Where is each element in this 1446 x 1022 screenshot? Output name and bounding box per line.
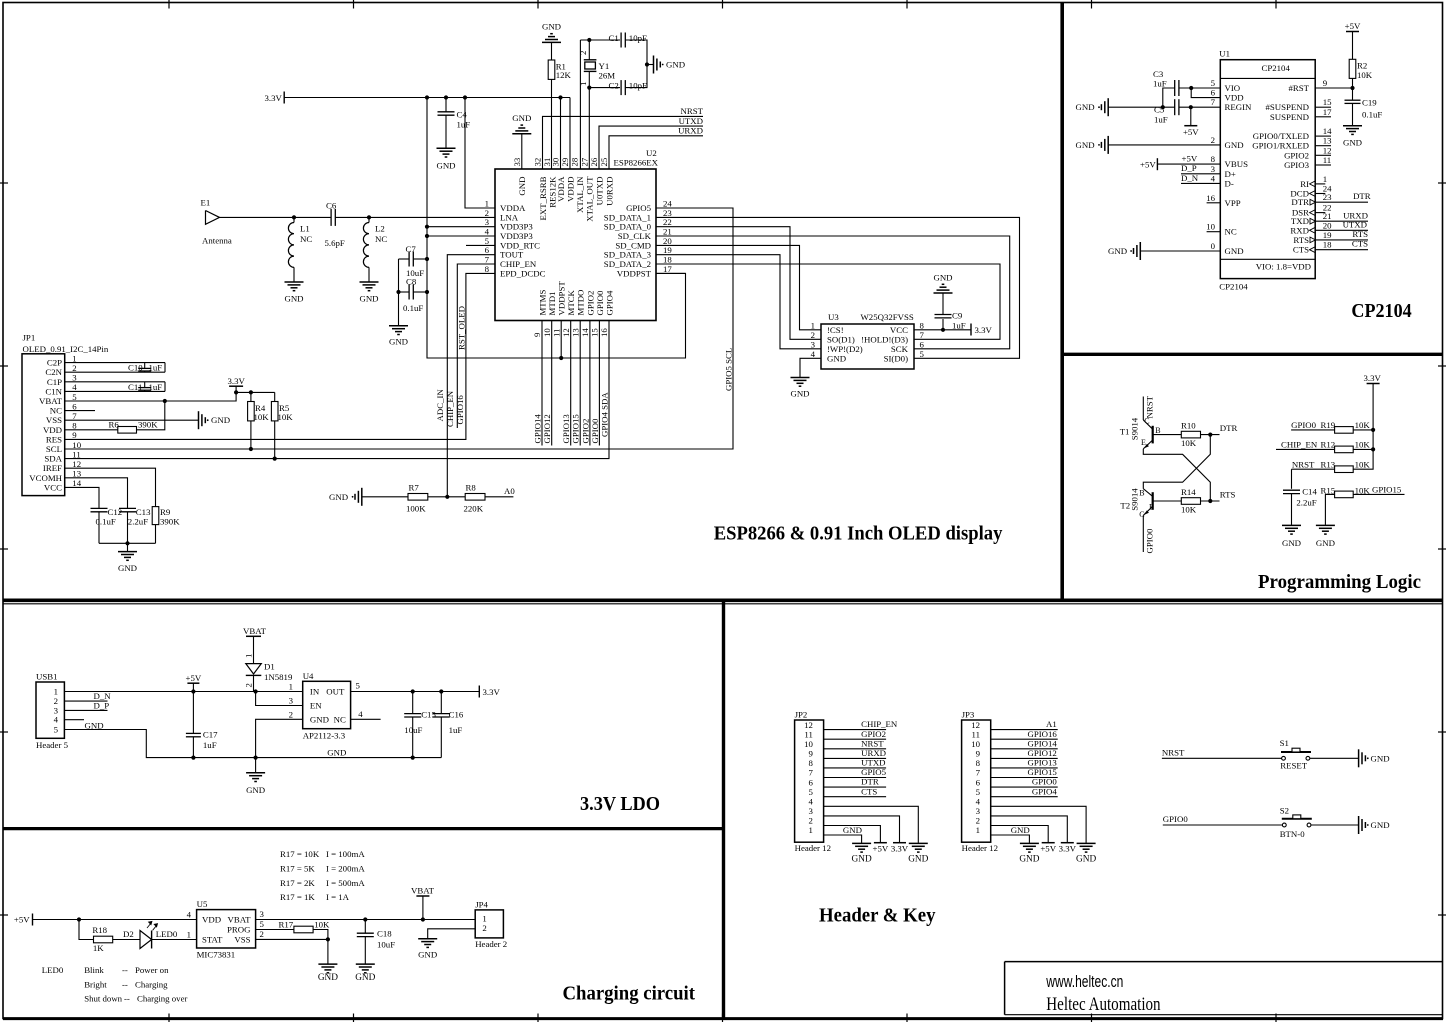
T2 emitter wire to GPIO0 xyxy=(1143,506,1152,515)
capacitor C5 xyxy=(1174,99,1176,115)
svg-text:D_P: D_P xyxy=(94,701,110,711)
svg-text:25: 25 xyxy=(599,157,609,166)
svg-text:9: 9 xyxy=(1323,78,1328,88)
svg-text:JP1: JP1 xyxy=(23,333,36,343)
svg-text:Blink: Blink xyxy=(84,965,104,975)
svg-text:C8: C8 xyxy=(406,277,417,287)
svg-text:GPIO1/RXLED: GPIO1/RXLED xyxy=(1252,141,1309,151)
svg-text:Antenna: Antenna xyxy=(202,236,232,246)
wire NRST to U2 pin32 xyxy=(543,116,704,169)
wire U4 GND pin2 to rail and USB pin4 row xyxy=(256,719,303,757)
resistor R14 xyxy=(1153,500,1182,502)
chip U5 MIC73831 body xyxy=(197,910,256,948)
T1 emitter wire xyxy=(1143,440,1152,449)
svg-text:GND: GND xyxy=(327,747,346,757)
wire U4 OUT to 3.3V xyxy=(351,691,480,693)
wire R12 to rail xyxy=(1353,448,1373,450)
svg-text:RTS: RTS xyxy=(1352,229,1368,239)
svg-text:220K: 220K xyxy=(464,504,484,514)
svg-text:15: 15 xyxy=(1323,97,1332,107)
wire JP1 pin1 C2P xyxy=(65,362,165,364)
svg-text:GPIO15: GPIO15 xyxy=(1372,485,1402,495)
svg-text:6: 6 xyxy=(976,777,981,787)
svg-text:GND: GND xyxy=(790,389,809,399)
svg-text:1uF: 1uF xyxy=(457,120,471,130)
svg-text:3.3V: 3.3V xyxy=(265,93,283,103)
svg-text:5: 5 xyxy=(808,787,813,797)
svg-text:2: 2 xyxy=(808,816,812,826)
svg-text:26M: 26M xyxy=(599,71,616,81)
svg-text:GND: GND xyxy=(843,825,862,835)
svg-text:SUSPEND: SUSPEND xyxy=(1270,112,1309,122)
wire GPIO0 to S2 xyxy=(1163,824,1283,826)
svg-text:18: 18 xyxy=(1323,240,1332,250)
svg-text:+5V: +5V xyxy=(14,915,30,925)
svg-text:3.3V: 3.3V xyxy=(1059,843,1077,853)
svg-text:R9: R9 xyxy=(160,507,171,517)
wire JP3 pin1 to ground xyxy=(991,835,1030,843)
junction VDDA pin1 drop xyxy=(463,95,467,99)
connector JP2 body xyxy=(795,720,824,842)
capacitor C15 xyxy=(412,692,414,714)
svg-text:AP2112-3.3: AP2112-3.3 xyxy=(303,731,346,741)
wire crystal to node xyxy=(588,40,590,60)
svg-text:1: 1 xyxy=(187,930,191,940)
svg-text:--: -- xyxy=(122,965,128,975)
ground GND below JP3 pin1 xyxy=(1020,842,1039,844)
svg-text:GND: GND xyxy=(310,715,329,725)
svg-text:VSS: VSS xyxy=(234,935,250,945)
svg-text:8: 8 xyxy=(808,758,813,768)
svg-text:GPIO4: GPIO4 xyxy=(1032,786,1058,796)
svg-text:8: 8 xyxy=(485,264,490,274)
wire C12/C13/R9 bottom rail xyxy=(99,542,156,544)
svg-text:17: 17 xyxy=(663,264,672,274)
svg-text:12: 12 xyxy=(971,720,980,730)
svg-text:U0RXD: U0RXD xyxy=(604,177,614,206)
svg-text:VBAT: VBAT xyxy=(228,915,252,925)
wire U1 pin24 DCD stub xyxy=(1315,193,1325,195)
wire S2 to ground xyxy=(1311,824,1359,826)
wire SD_DATA_0 pin22 to U3 SO xyxy=(656,227,821,340)
svg-text:1: 1 xyxy=(976,825,980,835)
svg-text:C1: C1 xyxy=(609,33,619,43)
svg-text:LED0: LED0 xyxy=(156,929,178,939)
svg-text:GND: GND xyxy=(1225,140,1244,150)
svg-text:R6: R6 xyxy=(109,420,120,430)
svg-text:+5V: +5V xyxy=(1182,154,1198,164)
wire U1 pin12 stub xyxy=(1315,154,1331,156)
ESP8266 U2 chip body xyxy=(495,169,656,321)
svg-text:S9014: S9014 xyxy=(1129,417,1139,440)
svg-text:9: 9 xyxy=(976,749,981,759)
wire USB1 pin3 xyxy=(64,709,107,711)
svg-text:Header & Key: Header & Key xyxy=(819,906,936,927)
svg-text:12: 12 xyxy=(561,328,571,337)
svg-text:U0TXD: U0TXD xyxy=(594,177,604,206)
wire JP1 pin3 C1P xyxy=(65,381,165,383)
section divider CP2104/Programming xyxy=(1062,353,1443,356)
chip U4 AP2112 body xyxy=(303,681,351,728)
svg-text:UTXD: UTXD xyxy=(1343,219,1367,229)
wire R8 to A0 xyxy=(485,496,513,498)
svg-text:C9: C9 xyxy=(952,311,963,321)
wire USB1 pin1 +5V line to U4 IN xyxy=(64,691,302,693)
ground GND below C18 xyxy=(356,963,375,965)
junction C8 left xyxy=(396,290,400,294)
svg-text:5: 5 xyxy=(976,787,981,797)
svg-text:ESP8266EX: ESP8266EX xyxy=(614,158,659,168)
wire JP1 pin14 VCC to C12 xyxy=(65,487,99,508)
svg-text:10K: 10K xyxy=(1181,505,1197,515)
svg-text:MTD1: MTD1 xyxy=(547,292,557,316)
svg-text:GND: GND xyxy=(1282,538,1301,548)
svg-text:10pF: 10pF xyxy=(629,81,647,91)
svg-text:GPIO0: GPIO0 xyxy=(590,418,600,444)
wire JP2 pin4 to ground xyxy=(824,806,919,843)
svg-text:+5V: +5V xyxy=(1183,127,1199,137)
ground GND below C4 xyxy=(437,147,456,149)
svg-text:DTR: DTR xyxy=(1291,197,1309,207)
svg-text:30: 30 xyxy=(551,157,561,166)
svg-text:11: 11 xyxy=(804,729,812,739)
svg-text:4: 4 xyxy=(976,796,981,806)
svg-text:16: 16 xyxy=(1206,193,1215,203)
svg-text:1uF: 1uF xyxy=(449,725,463,735)
svg-text:L2: L2 xyxy=(375,224,385,234)
junction C15 xyxy=(411,689,415,693)
junction DTR xyxy=(1208,433,1212,437)
svg-text:VSS: VSS xyxy=(46,415,62,425)
svg-text:GPIO2: GPIO2 xyxy=(580,419,590,444)
wire U3 GND pin4 xyxy=(800,358,821,377)
svg-text:0.1uF: 0.1uF xyxy=(96,517,116,527)
svg-text:Charging over: Charging over xyxy=(137,994,187,1004)
svg-text:1uF: 1uF xyxy=(952,320,966,330)
svg-text:SCK: SCK xyxy=(891,344,909,354)
svg-text:NRST: NRST xyxy=(1162,747,1185,757)
svg-text:10K: 10K xyxy=(254,412,270,422)
diode D2 LED0 xyxy=(140,931,152,949)
section divider vertical main/CP2104 xyxy=(1060,3,1064,602)
wire U2 pin7 CHIP_EN xyxy=(457,264,495,428)
svg-text:GND: GND xyxy=(318,973,338,983)
connector JP3 body xyxy=(962,720,991,842)
wire U5 PROG pin5 to R17 xyxy=(256,929,294,931)
svg-text:7: 7 xyxy=(808,768,813,778)
svg-text:EXT_RSRB: EXT_RSRB xyxy=(538,176,548,220)
svg-text:5: 5 xyxy=(72,392,77,402)
wire 3.3V vertical x427 to pins3/4 and VDDPST line xyxy=(427,98,686,359)
power port +5V below REGIN xyxy=(1190,107,1192,126)
power port +5V at JP3 xyxy=(1042,842,1055,844)
junction C18 xyxy=(363,917,367,921)
svg-text:5: 5 xyxy=(356,681,361,691)
wire antenna to LNA xyxy=(220,216,332,218)
svg-text:1: 1 xyxy=(54,687,58,697)
svg-text:4: 4 xyxy=(811,349,816,359)
wire to pin3 xyxy=(427,226,495,228)
svg-text:GND: GND xyxy=(542,22,561,32)
svg-text:3.3V: 3.3V xyxy=(891,843,909,853)
junction C15/rail xyxy=(411,756,415,760)
wire U2 bottom pins 9,10,12,13,14,15 net stubs xyxy=(541,321,543,446)
wire DTR xyxy=(1315,201,1368,203)
svg-text:U4: U4 xyxy=(303,671,314,681)
ground GND below rail at U4 xyxy=(255,758,257,773)
svg-text:C18: C18 xyxy=(377,929,392,939)
svg-text:0.1uF: 0.1uF xyxy=(1362,110,1382,120)
svg-text:R13: R13 xyxy=(1321,459,1336,469)
svg-text:Header 12: Header 12 xyxy=(962,843,998,853)
svg-text:GPIO4 SDA: GPIO4 SDA xyxy=(599,392,609,437)
wire CTS xyxy=(1315,249,1368,251)
junction 3.3V/VDD3P3 drop xyxy=(425,95,429,99)
svg-text:3: 3 xyxy=(260,909,265,919)
wire C1/C2 right to ground xyxy=(625,40,647,88)
svg-text:8: 8 xyxy=(1211,154,1216,164)
svg-text:GND: GND xyxy=(1019,855,1039,865)
wire U1 pin13 stub xyxy=(1315,145,1331,147)
svg-text:GND: GND xyxy=(359,294,378,304)
svg-text:10: 10 xyxy=(1206,222,1215,232)
svg-text:6: 6 xyxy=(808,777,813,787)
svg-text:2: 2 xyxy=(976,816,980,826)
ground GND below C12 C13 R9 xyxy=(118,551,137,553)
svg-text:A1: A1 xyxy=(1046,719,1057,729)
svg-text:C4: C4 xyxy=(457,110,468,120)
svg-text:CTS: CTS xyxy=(1293,245,1309,255)
svg-text:Power on: Power on xyxy=(135,965,169,975)
svg-text:GND: GND xyxy=(1371,820,1390,830)
wire U1 pin11 stub xyxy=(1315,164,1331,166)
svg-text:I = 1A: I = 1A xyxy=(326,892,350,902)
inductor L2 xyxy=(368,217,370,222)
wire S1 to ground xyxy=(1310,757,1359,759)
svg-text:6: 6 xyxy=(1211,88,1216,98)
svg-text:MTMS: MTMS xyxy=(537,289,547,315)
junction RTS xyxy=(1208,499,1212,503)
svg-text:+5V: +5V xyxy=(186,673,202,683)
svg-text:VDD: VDD xyxy=(202,915,221,925)
wire U1 pin17 stub xyxy=(1315,116,1331,118)
wire U1 pin22 DSR stub xyxy=(1315,212,1325,214)
svg-text:R17 = 10K: R17 = 10K xyxy=(280,849,320,859)
svg-text:CP2104: CP2104 xyxy=(1262,63,1291,73)
ground GND below U3 xyxy=(791,377,810,379)
svg-text:Shut down: Shut down xyxy=(84,994,122,1004)
svg-text:1uF: 1uF xyxy=(1154,115,1168,125)
svg-text:32: 32 xyxy=(533,158,543,167)
junction ADC_IN divider xyxy=(445,495,449,499)
junction R19/rail xyxy=(1371,428,1375,432)
capacitor C12 xyxy=(91,507,108,509)
capacitor C10 xyxy=(144,363,146,369)
svg-text:2: 2 xyxy=(1211,135,1215,145)
svg-text:10K: 10K xyxy=(278,412,294,422)
svg-text:URXD: URXD xyxy=(678,126,703,136)
junction R12/rail xyxy=(1371,447,1375,451)
svg-text:15: 15 xyxy=(590,328,600,337)
svg-text:10: 10 xyxy=(72,440,81,450)
flash U3 chip body xyxy=(821,324,914,369)
svg-text:!CS!: !CS! xyxy=(827,325,844,335)
svg-text:3: 3 xyxy=(808,806,813,816)
svg-text:NC: NC xyxy=(1225,227,1237,237)
svg-text:C10: C10 xyxy=(128,363,143,373)
svg-text:EN: EN xyxy=(310,701,322,711)
svg-text:CP2104: CP2104 xyxy=(1351,300,1411,322)
svg-text:R19: R19 xyxy=(1321,420,1336,430)
svg-text:PROG: PROG xyxy=(227,925,251,935)
svg-text:GND: GND xyxy=(1371,754,1390,764)
junction VBAT port xyxy=(421,917,425,921)
wire JP4 pin2 to ground xyxy=(428,929,476,938)
svg-text:3: 3 xyxy=(811,339,816,349)
svg-text:C11: C11 xyxy=(128,382,142,392)
svg-text:C3: C3 xyxy=(1153,69,1164,79)
wire D1 node to U4 EN xyxy=(256,692,303,706)
svg-text:2: 2 xyxy=(482,923,486,933)
svg-text:U3: U3 xyxy=(828,312,839,322)
capacitor C13 xyxy=(119,507,136,509)
junction C8 right xyxy=(425,290,429,294)
USB connector USB1 body xyxy=(36,682,64,738)
svg-text:R10: R10 xyxy=(1181,421,1196,431)
wire JP1 pin4 C1N xyxy=(65,390,165,392)
ground GND right of JP2 xyxy=(909,842,928,844)
svg-text:CTS: CTS xyxy=(1352,239,1368,249)
svg-text:NC: NC xyxy=(334,715,346,725)
junction C16 xyxy=(439,689,443,693)
cross wire DTR to T2 collector xyxy=(1143,435,1210,489)
svg-text:MIC73831: MIC73831 xyxy=(197,950,236,960)
svg-text:VCC: VCC xyxy=(890,325,908,335)
wire C3 left loop to REGIN line xyxy=(1163,88,1175,107)
capacitor C19 xyxy=(1352,88,1354,100)
svg-text:5: 5 xyxy=(260,919,265,929)
wire SD_CMD pin20 to U3 CS xyxy=(656,245,821,329)
svg-text:13: 13 xyxy=(1323,136,1332,146)
svg-text:2: 2 xyxy=(260,929,264,939)
svg-text:1: 1 xyxy=(482,914,486,924)
svg-text:GND: GND xyxy=(827,353,846,363)
wire GPIO0 to R19 xyxy=(1291,429,1335,431)
svg-text:GPIO14: GPIO14 xyxy=(1027,738,1057,748)
svg-text:GND: GND xyxy=(852,855,872,865)
wire U2 pin11 VDDPST to 3.3V line xyxy=(560,321,562,359)
svg-text:NRST: NRST xyxy=(681,106,704,116)
wire +5V to VBUS xyxy=(1157,163,1220,165)
svg-text:1uF: 1uF xyxy=(203,740,217,750)
svg-text:10K: 10K xyxy=(1355,440,1371,450)
svg-text:GPIO15: GPIO15 xyxy=(1027,767,1057,777)
svg-text:2.2uF: 2.2uF xyxy=(1296,498,1316,508)
svg-text:D+: D+ xyxy=(1225,169,1236,179)
svg-text:D_N: D_N xyxy=(1181,173,1199,183)
resistor R13 xyxy=(1335,466,1354,473)
ground GND below L1 xyxy=(285,281,304,283)
resistor R2 xyxy=(1352,32,1354,60)
svg-text:GPIO15: GPIO15 xyxy=(571,414,581,444)
wire D- to U1 pin4 xyxy=(1181,182,1220,184)
wire ground to R7 xyxy=(362,496,408,498)
svg-text:C19: C19 xyxy=(1362,98,1377,108)
svg-text:B: B xyxy=(1155,426,1160,435)
svg-text:GPIO0: GPIO0 xyxy=(1032,777,1058,787)
svg-text:9: 9 xyxy=(532,332,542,337)
svg-text:BTN-0: BTN-0 xyxy=(1280,829,1306,839)
junction L1 xyxy=(292,215,296,219)
connector JP4 body xyxy=(475,910,503,938)
wire RTS xyxy=(1315,239,1368,241)
svg-text:1: 1 xyxy=(808,825,812,835)
svg-text:9: 9 xyxy=(808,749,813,759)
wire VBAT to R6 xyxy=(137,401,165,430)
svg-text:10K: 10K xyxy=(1355,459,1371,469)
svg-text:E: E xyxy=(1141,438,1146,447)
wire USB1 pin5 to ground rail xyxy=(64,730,441,758)
svg-text:RES: RES xyxy=(46,434,62,444)
inductor L1 xyxy=(293,217,295,222)
svg-text:10uF: 10uF xyxy=(377,940,395,950)
junction R18 branch xyxy=(77,917,81,921)
svg-text:GPIO16: GPIO16 xyxy=(455,395,465,425)
svg-text:1N5819: 1N5819 xyxy=(264,672,293,682)
wire R15 left to ground xyxy=(1325,494,1334,525)
svg-text:C1P: C1P xyxy=(47,377,62,387)
svg-text:GPIO13: GPIO13 xyxy=(1027,758,1057,768)
wire SD_CLK pin21 to U3 SCK xyxy=(656,236,1010,349)
svg-text:Y1: Y1 xyxy=(599,61,610,71)
svg-text:D-: D- xyxy=(1225,178,1234,188)
svg-text:1: 1 xyxy=(1323,174,1327,184)
capacitor C8 xyxy=(399,291,409,293)
svg-text:4: 4 xyxy=(72,382,77,392)
T2 collector wire xyxy=(1143,489,1152,497)
svg-text:C2N: C2N xyxy=(45,367,62,377)
svg-text:NRST: NRST xyxy=(861,738,884,748)
capacitor C11 xyxy=(144,382,146,388)
svg-text:1: 1 xyxy=(578,82,588,86)
svg-text:9: 9 xyxy=(72,430,77,440)
wire pin33 to ground xyxy=(521,134,523,169)
capacitor C1 xyxy=(620,33,622,48)
wire TXD/URXD xyxy=(1315,220,1368,222)
svg-text:GND: GND xyxy=(1011,825,1030,835)
wire JP1 pin6 NC stub xyxy=(65,410,95,412)
svg-text:GPIO0: GPIO0 xyxy=(595,290,605,316)
svg-text:7: 7 xyxy=(1211,97,1216,107)
svg-text:3: 3 xyxy=(289,696,294,706)
wire U1 VPP pin16 stub xyxy=(1207,202,1221,204)
wire branch to R18 xyxy=(79,920,94,940)
svg-text:GND: GND xyxy=(908,855,928,865)
power port 3.3V at U4 OUT xyxy=(478,686,480,698)
svg-text:RI: RI xyxy=(1300,179,1309,189)
svg-text:IREF: IREF xyxy=(43,463,62,473)
svg-text:GPIO13: GPIO13 xyxy=(561,414,571,444)
svg-text:R18: R18 xyxy=(92,925,107,935)
wire JP1 pin7 VSS to ground xyxy=(65,419,198,421)
transistor T1 S9014 xyxy=(1152,426,1154,444)
svg-text:C15: C15 xyxy=(421,710,436,720)
svg-text:R7: R7 xyxy=(409,483,420,493)
svg-text:1uF: 1uF xyxy=(1153,79,1167,89)
wire U4 NC pin4 stub xyxy=(351,718,381,720)
svg-text:10K: 10K xyxy=(1355,420,1371,430)
junction C7 right xyxy=(425,257,429,261)
